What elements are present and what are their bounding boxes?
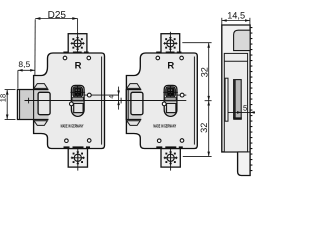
tab step line: [238, 151, 251, 153]
svg-text:18: 18: [0, 94, 7, 102]
pin hole left of cylinder: [162, 102, 166, 106]
cylinder U2: [163, 85, 178, 116]
bracket edge over latch: [33, 89, 35, 120]
cylinder axis line right: [177, 94, 186, 96]
cylinder hump side: [234, 30, 251, 50]
svg-text:32: 32: [199, 123, 209, 133]
lock body left: [34, 32, 105, 171]
dimension 14,5: [222, 18, 250, 25]
guide plate side: [225, 78, 228, 121]
dimension 8,5: [18, 69, 35, 89]
svg-text:4: 4: [108, 95, 115, 99]
svg-text:8,5: 8,5: [18, 60, 30, 69]
collar line: [224, 60, 247, 62]
dimension D25: [35, 17, 78, 75]
pin hole right of cylinder: [87, 93, 91, 97]
latch face line: [127, 90, 129, 120]
svg-text:D25: D25: [48, 10, 67, 21]
guide opening: [38, 92, 50, 114]
side profile outline: [222, 25, 250, 176]
latch bolt extended: [17, 90, 48, 120]
center tick: [120, 98, 122, 104]
centerline latch: [118, 100, 165, 102]
dimension 18: [5, 90, 16, 120]
dimension 4: [117, 87, 120, 110]
centerline right of cylinder: [84, 100, 131, 102]
pin hole right of cylinder: [180, 93, 184, 97]
slot edge thick: [234, 80, 236, 118]
slot foot: [233, 117, 242, 119]
latch face line: [19, 90, 21, 120]
case block side: [224, 53, 247, 151]
cylinder U1: [70, 85, 85, 116]
svg-text:14,5: 14,5: [227, 10, 245, 20]
svg-text:32: 32: [200, 67, 210, 77]
centerline latch: [25, 100, 72, 102]
dimension 5: [228, 111, 255, 114]
latch slot side: [234, 80, 242, 118]
bracket edge over latch: [125, 89, 127, 120]
pin hole left of cylinder: [70, 102, 74, 106]
centerline right of cylinder: [177, 100, 186, 102]
guide opening: [131, 92, 143, 114]
latch bolt retracted: [126, 90, 141, 120]
svg-text:5: 5: [243, 104, 247, 113]
lock body middle: [126, 32, 197, 171]
mounting edge serration: [250, 27, 252, 171]
center tick: [28, 98, 30, 104]
dimension 32 top: [182, 43, 211, 157]
cylinder axis line right: [84, 94, 118, 96]
